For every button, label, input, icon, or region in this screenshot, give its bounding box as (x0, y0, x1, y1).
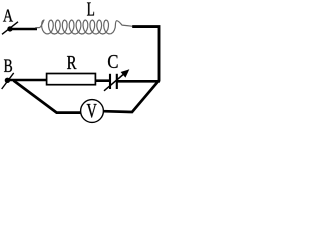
capacitor variable arrow shaft (104, 73, 126, 91)
capacitor arrow head (121, 69, 130, 77)
wire capacitor to right junction (117, 80, 160, 83)
terminal B dot (5, 78, 10, 83)
label V (87, 104, 97, 118)
wire resistor to capacitor (96, 79, 110, 82)
label A (3, 10, 13, 22)
wire inductor to top-right corner and down (132, 27, 159, 82)
wire A to inductor (10, 28, 37, 31)
capacitor C right plate (116, 74, 118, 89)
wire B branch to voltmeter (14, 81, 81, 113)
terminal B lead (2, 73, 14, 89)
wire voltmeter to right junction (103, 81, 158, 112)
voltmeter V body (81, 100, 104, 123)
label R (67, 56, 77, 69)
capacitor C left plate (109, 74, 111, 89)
wire B to resistor (7, 79, 46, 82)
terminal A dot (7, 26, 12, 31)
inductor L (35, 20, 133, 34)
resistor R (47, 74, 96, 85)
terminal A lead (2, 22, 18, 35)
label C (108, 55, 118, 68)
label B (4, 60, 12, 73)
label L (87, 3, 94, 16)
